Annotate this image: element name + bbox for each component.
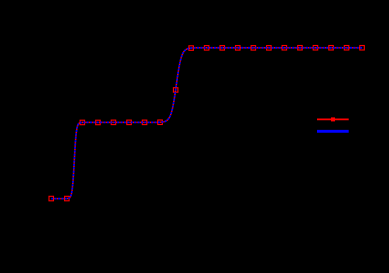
red dotted step curve: [51, 48, 362, 199]
legend red line: [317, 118, 349, 120]
legend blue line: [317, 130, 349, 133]
blue dotted step curve: [51, 48, 362, 199]
legend red marker: [331, 117, 335, 121]
red square markers: [49, 46, 364, 201]
